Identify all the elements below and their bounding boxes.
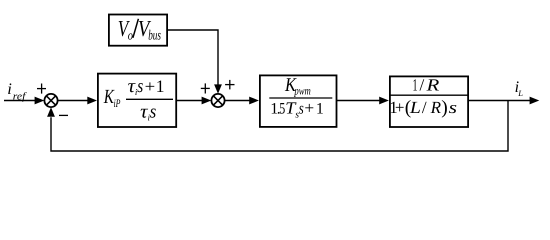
svg-text:s: s <box>137 76 143 97</box>
svg-text:+: + <box>395 98 405 117</box>
svg-text:/: / <box>420 75 425 94</box>
svg-text:+: + <box>304 99 314 118</box>
svg-text:iP: iP <box>114 98 121 110</box>
svg-text:): ) <box>441 97 448 118</box>
svg-text:pwm: pwm <box>294 86 311 98</box>
svg-text:R: R <box>430 98 442 117</box>
svg-text:bus: bus <box>148 28 161 43</box>
svg-text:s: s <box>150 101 157 122</box>
svg-text:o: o <box>128 28 134 43</box>
svg-text:s: s <box>299 99 304 118</box>
svg-text:R: R <box>425 75 440 94</box>
svg-text:5: 5 <box>279 101 285 118</box>
svg-text:L: L <box>517 88 523 98</box>
svg-text:/: / <box>422 98 427 117</box>
svg-text:i: i <box>7 81 12 98</box>
svg-text:L: L <box>409 98 421 117</box>
svg-text:1: 1 <box>413 75 418 94</box>
svg-text:+: + <box>145 77 156 96</box>
svg-text:1: 1 <box>156 76 165 96</box>
svg-text:1: 1 <box>316 101 324 118</box>
svg-text:s: s <box>449 98 458 117</box>
